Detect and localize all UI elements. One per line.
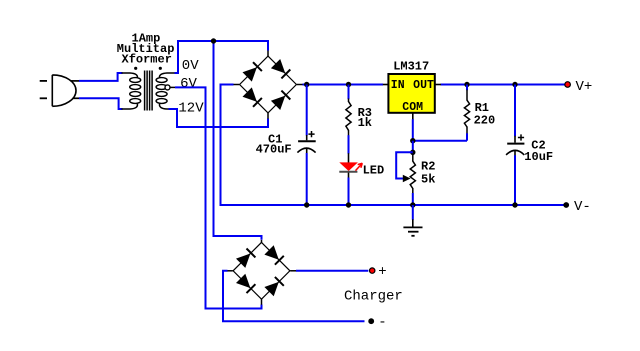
svg-text:IN: IN bbox=[391, 79, 405, 92]
terminal charger plus dot bbox=[370, 268, 375, 273]
wire V- rail to ground bbox=[412, 205, 414, 220]
AC plug prong top bbox=[40, 80, 47, 82]
svg-text:LED: LED bbox=[363, 164, 385, 178]
svg-text:10uF: 10uF bbox=[524, 150, 553, 164]
wire top bridge DC- down to V- rail bbox=[221, 85, 564, 206]
svg-text:R2: R2 bbox=[421, 160, 435, 174]
wire charger bridge DC- to minus terminal bbox=[223, 271, 365, 321]
resistor R2 top lead bbox=[412, 155, 414, 162]
diode D5-8b (top corner to right corner) bbox=[264, 245, 278, 259]
node R2 bottom junction bbox=[410, 202, 415, 207]
svg-text:220: 220 bbox=[474, 114, 496, 128]
terminal V- dot bbox=[563, 202, 569, 208]
top bridge top stub bbox=[267, 51, 269, 57]
node R3 top junction bbox=[346, 82, 351, 87]
svg-text:470uF: 470uF bbox=[256, 143, 292, 157]
svg-text:Charger: Charger bbox=[344, 288, 403, 304]
AC plug lead top bbox=[71, 80, 79, 82]
resistor R1 top lead bbox=[466, 90, 468, 101]
wire top bridge DC+ to LM317 IN bbox=[303, 84, 384, 86]
diode D1-4d (bottom corner to right corner) bbox=[271, 96, 285, 110]
node 0V top-rail junction bbox=[211, 38, 216, 43]
svg-text:V-: V- bbox=[574, 199, 591, 215]
node COM junction bbox=[410, 138, 415, 143]
wire COM node down to R2 bbox=[412, 141, 414, 155]
bridge rectifier D1-4 diamond bbox=[240, 56, 297, 113]
transformer T1 core bbox=[145, 71, 153, 111]
terminal charger minus dot bbox=[368, 318, 374, 324]
svg-text:0V: 0V bbox=[182, 58, 199, 74]
resistor R1 bottom lead bbox=[466, 127, 468, 134]
svg-text:OUT: OUT bbox=[413, 79, 434, 92]
resistor R2 bbox=[410, 161, 415, 188]
node LED bottom junction bbox=[346, 202, 351, 207]
svg-text:-: - bbox=[378, 315, 386, 331]
bridge rectifier D5-8 diamond bbox=[233, 242, 290, 299]
resistor R3 bottom lead bbox=[348, 130, 350, 136]
capacitor C1 top plate bbox=[298, 140, 316, 142]
svg-text:+: + bbox=[378, 264, 386, 280]
svg-text:LM317: LM317 bbox=[393, 60, 429, 74]
transformer T1 primary winding bbox=[130, 78, 141, 104]
svg-text:6V: 6V bbox=[180, 76, 197, 92]
wire plug bottom to primary bottom bbox=[79, 98, 123, 109]
wire C2 bottom bbox=[514, 155, 516, 205]
node R1 top junction bbox=[464, 82, 469, 87]
AC plug prong bottom bbox=[40, 97, 47, 99]
capacitor C1 bottom lead bbox=[306, 148, 308, 154]
LED D5 bottom lead bbox=[348, 173, 350, 178]
svg-text:V+: V+ bbox=[576, 79, 593, 95]
diode D1-4c (left corner to bottom corner) bbox=[243, 87, 257, 101]
svg-text:COM: COM bbox=[402, 101, 423, 114]
capacitor C2 top lead bbox=[514, 136, 516, 143]
charger bridge bottom stub bbox=[261, 299, 263, 305]
wire COM node to R1 bottom bbox=[413, 140, 467, 142]
ground bar 1 bbox=[403, 226, 422, 228]
AC plug P1 body bbox=[52, 75, 76, 106]
wire R3 to LED bbox=[348, 135, 350, 153]
transformer T1 primary bottom lead bbox=[122, 104, 138, 109]
U1 COM pin stub bbox=[412, 113, 414, 120]
capacitor C2 curved plate bbox=[506, 150, 524, 155]
diode D1-4a (left corner to top corner) bbox=[243, 67, 257, 81]
wire 0V tap up and across to top bridge bbox=[175, 41, 269, 73]
svg-text:Xformer: Xformer bbox=[122, 52, 172, 66]
wire R2 wiper loop bbox=[396, 152, 413, 178]
wire C1 top bbox=[306, 85, 308, 136]
node C1 bottom junction bbox=[304, 202, 309, 207]
transformer T1 secondary bottom lead bbox=[159, 104, 169, 109]
transformer T1 6V tap circle bbox=[165, 85, 170, 90]
transformer T1 polarity dot left bbox=[134, 67, 137, 70]
capacitor C2 bottom lead bbox=[514, 150, 516, 156]
U1 IN pin stub bbox=[383, 84, 388, 86]
AC plug lead bottom bbox=[73, 97, 79, 99]
LED D5 arrow bbox=[356, 163, 363, 170]
wire R1 bottom bbox=[466, 133, 468, 140]
LED D5 triangle bbox=[339, 162, 358, 171]
regulator U1 LM317 body bbox=[388, 74, 434, 113]
terminal V+ dot bbox=[565, 82, 571, 88]
wire LM317 OUT to V+ terminal bbox=[441, 84, 565, 86]
capacitor C1 curved plate bbox=[297, 148, 315, 153]
wire LED to V- rail bbox=[348, 178, 350, 206]
resistor R1 bbox=[464, 100, 469, 127]
transformer T1 secondary winding bbox=[156, 78, 167, 104]
svg-text:12V: 12V bbox=[178, 100, 204, 116]
resistor R3 top lead bbox=[348, 99, 350, 103]
capacitor C2 plus sign bbox=[518, 134, 524, 140]
capacitor C2 top plate bbox=[507, 143, 524, 145]
node C2 bottom junction bbox=[512, 202, 517, 207]
node R2 top junction bbox=[410, 150, 415, 155]
wire charger bridge DC+ to plus terminal bbox=[296, 270, 368, 272]
diode D5-8a (left corner to top corner) bbox=[236, 254, 250, 268]
charger bridge left stub bbox=[227, 270, 233, 272]
ground bar 2 bbox=[408, 231, 419, 233]
capacitor C1 plus sign bbox=[308, 131, 314, 137]
diode D5-8d (bottom corner to right corner) bbox=[264, 282, 278, 296]
diode D1-4b (top corner to right corner) bbox=[271, 59, 285, 73]
resistor R3 bbox=[346, 102, 351, 131]
diode D5-8c (left corner to bottom corner) bbox=[236, 274, 250, 288]
wire 0V branch down to charger bridge bbox=[214, 41, 262, 240]
LED D5 cathode bar bbox=[339, 171, 357, 173]
top bridge left stub bbox=[233, 84, 239, 86]
wire R2 bottom to V- rail bbox=[412, 193, 414, 205]
top bridge bottom stub bbox=[267, 113, 269, 119]
ground bar 3 bbox=[411, 235, 414, 237]
transformer T1 primary top lead bbox=[122, 73, 138, 78]
svg-text:1k: 1k bbox=[358, 116, 372, 130]
wire plug top to primary top bbox=[79, 73, 123, 81]
resistor R2 bottom lead bbox=[412, 188, 414, 194]
charger bridge right stub bbox=[290, 270, 296, 272]
wire 6V tap down to charger bridge bottom bbox=[175, 87, 262, 308]
wire R3 top bbox=[348, 85, 350, 100]
capacitor C1 top lead bbox=[306, 135, 308, 140]
top bridge right stub bbox=[297, 84, 304, 86]
transformer T1 6V tap lead bbox=[170, 86, 175, 88]
transformer T1 secondary top lead bbox=[159, 73, 175, 78]
transformer T1 polarity dot right bbox=[159, 67, 162, 70]
wire R1 top bbox=[466, 85, 468, 91]
wire C2 top bbox=[514, 85, 516, 137]
svg-text:5k: 5k bbox=[421, 173, 435, 187]
node C1 top junction bbox=[304, 82, 309, 87]
wire 12V tap down and across to top bridge bottom bbox=[169, 109, 269, 127]
wire COM pin down bbox=[412, 119, 414, 142]
U1 OUT pin stub bbox=[435, 84, 441, 86]
LED D5 top lead bbox=[348, 153, 350, 162]
node C2 top junction bbox=[512, 82, 517, 87]
ground lead bbox=[412, 219, 414, 227]
R2 wiper arrow bbox=[403, 175, 411, 183]
charger bridge top stub bbox=[261, 240, 263, 243]
wire C1 bottom bbox=[306, 153, 308, 205]
